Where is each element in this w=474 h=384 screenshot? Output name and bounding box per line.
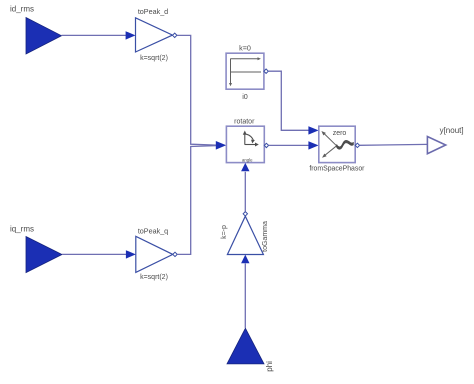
svg-text:id_rms: id_rms [10, 4, 34, 13]
arrowhead into rotator left input [216, 141, 226, 150]
svg-text:k=-p: k=-p [221, 225, 228, 239]
svg-text:k=sqrt(2): k=sqrt(2) [140, 55, 168, 62]
svg-text:rotator: rotator [234, 118, 255, 125]
svg-text:y[nout]: y[nout] [440, 126, 464, 135]
svg-text:i0: i0 [242, 92, 248, 101]
svg-text:toPeak_q: toPeak_q [138, 226, 168, 235]
svg-text:zero: zero [333, 130, 347, 137]
input connector iq_rms [26, 237, 62, 273]
wire [62, 34, 128, 36]
svg-text:phi: phi [265, 361, 274, 372]
wire [177, 35, 217, 145]
wire [360, 143, 428, 146]
gain toPeak_q [126, 226, 177, 281]
arrowhead into fromSpacePhasor lower input [308, 141, 318, 149]
svg-text:toGamma: toGamma [262, 221, 269, 252]
input connector id_rms [26, 18, 62, 55]
input connector phi [227, 328, 274, 372]
svg-text:iq_rms: iq_rms [10, 225, 34, 234]
wire [269, 144, 309, 146]
svg-text:fromSpacePhasor: fromSpacePhasor [309, 165, 365, 172]
svg-text:angle: angle [242, 158, 253, 163]
rotator [226, 118, 268, 162]
gain toGamma [221, 212, 269, 264]
svg-text:k=0: k=0 [239, 43, 251, 52]
arrowhead into fromSpacePhasor upper input [308, 126, 318, 134]
arrowhead into rotator bottom input [241, 163, 249, 171]
svg-text:k=sqrt(2): k=sqrt(2) [140, 274, 168, 281]
constant i0 [226, 43, 268, 101]
output connector y[nout] [427, 126, 463, 154]
wire [244, 264, 246, 329]
wire [244, 172, 246, 212]
gain toPeak_d [126, 7, 177, 62]
fromSpacePhasor [309, 126, 365, 172]
wire [268, 71, 309, 130]
svg-text:toPeak_d: toPeak_d [138, 7, 168, 16]
wire [62, 253, 127, 255]
wire [177, 146, 216, 255]
